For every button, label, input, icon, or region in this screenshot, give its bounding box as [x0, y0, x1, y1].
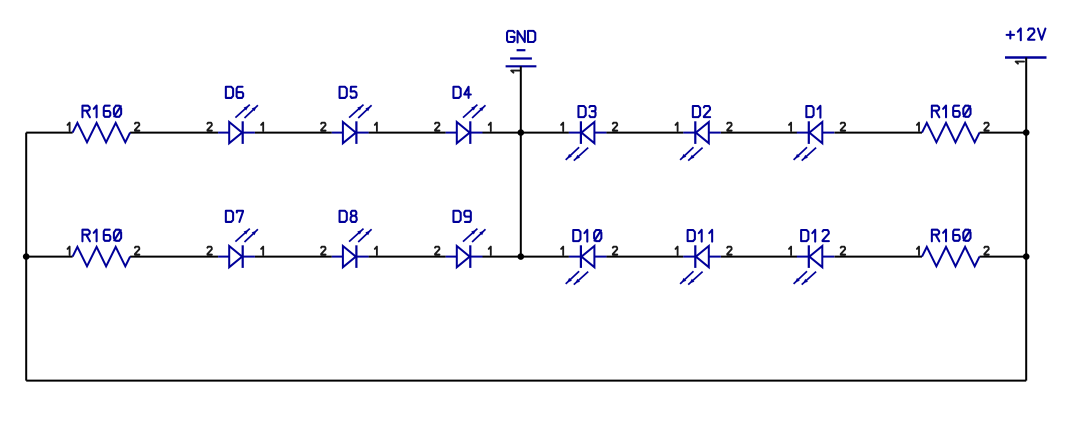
wire top row segment 5: [483, 132, 569, 134]
LED D5: [321, 87, 377, 144]
resistor R4 bottom-right R160: [917, 230, 989, 267]
wire middle row segment 9: [980, 256, 1027, 258]
wire middle row segment 4: [369, 256, 446, 258]
LED D10: [561, 230, 617, 285]
junction GND / top row: [518, 129, 525, 136]
LED D2: [676, 106, 732, 161]
junction +12V rail / top row: [1023, 129, 1030, 136]
wire +12V rail right vertical: [1025, 58, 1027, 381]
+12V power symbol: [1005, 28, 1047, 63]
wire top row segment 2: [130, 132, 218, 134]
wire middle row segment 1: [26, 256, 72, 258]
LED D8: [321, 211, 377, 268]
wire top row segment 7: [721, 132, 797, 134]
wire top row segment 6: [606, 132, 683, 134]
ground symbol GND: [506, 31, 537, 73]
wire middle row segment 5: [483, 256, 569, 258]
wire top row segment 9: [980, 132, 1027, 134]
LED D7: [207, 211, 263, 268]
wire middle row segment 3: [255, 256, 332, 258]
wire top row segment 4: [369, 132, 446, 134]
wire bottom rail horizontal: [26, 380, 1026, 382]
wire middle row segment 6: [606, 256, 683, 258]
LED D11: [676, 230, 732, 285]
LED D1: [789, 106, 845, 161]
LED D6: [207, 87, 263, 144]
junction GND / middle row: [518, 253, 525, 260]
wire GND net vertical drop: [520, 66, 522, 256]
resistor R3 top-right R160: [917, 106, 989, 143]
wire left rail vertical: [25, 133, 27, 381]
LED D12: [789, 230, 845, 285]
junction +12V rail / middle row: [1023, 253, 1030, 260]
wire top row segment 1: [26, 132, 72, 134]
resistor R1 top-left R160: [68, 106, 140, 143]
junction left rail / middle row: [23, 253, 30, 260]
wire middle row segment 8: [835, 256, 923, 258]
wire top row segment 3: [255, 132, 332, 134]
wire middle row segment 2: [130, 256, 218, 258]
wire top row segment 8: [835, 132, 923, 134]
LED D9: [435, 211, 491, 268]
LED D4: [435, 87, 491, 144]
resistor R2 bottom-left R160: [68, 230, 140, 267]
LED D3: [561, 106, 617, 161]
wire middle row segment 7: [721, 256, 797, 258]
